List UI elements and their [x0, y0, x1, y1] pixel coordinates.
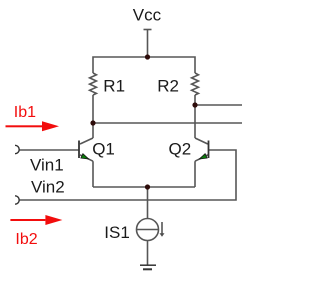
svg-text:Ib2: Ib2	[15, 231, 37, 248]
svg-text:R2: R2	[157, 77, 179, 96]
svg-text:Q1: Q1	[92, 139, 115, 158]
svg-text:Vcc: Vcc	[133, 5, 162, 24]
svg-text:Ib1: Ib1	[14, 104, 36, 121]
svg-text:IS1: IS1	[104, 223, 130, 242]
svg-text:Q2: Q2	[169, 139, 192, 158]
svg-text:Vin2: Vin2	[31, 177, 65, 196]
svg-text:Vin1: Vin1	[30, 155, 64, 174]
svg-text:R1: R1	[103, 77, 125, 96]
